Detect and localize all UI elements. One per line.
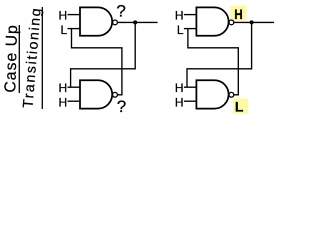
- nand gate G1 bubble: [113, 20, 118, 25]
- wire H input stub of NAND G2 (top): [68, 86, 81, 88]
- nand gate G3 body: [196, 7, 228, 35]
- svg-text:H: H: [59, 9, 68, 23]
- wire H input stub of NAND G3: [184, 14, 197, 16]
- node junction dot on Q of G3: [250, 20, 254, 24]
- svg-text:H: H: [175, 96, 184, 110]
- nand gate G1 body: [80, 7, 112, 35]
- svg-text:H: H: [175, 9, 184, 23]
- underline rule for "Case Up": [18, 25, 20, 93]
- svg-text:L: L: [177, 23, 184, 37]
- svg-text:?: ?: [117, 97, 126, 116]
- wire H input stub of NAND G1: [68, 14, 81, 16]
- wire H input stub of NAND G4 (top): [184, 86, 197, 88]
- svg-text:H: H: [59, 81, 68, 95]
- wire feedback Q to G4 top input (staircase): [187, 22, 252, 87]
- nand gate G3 bubble: [229, 20, 234, 25]
- nand gate G2 body: [80, 80, 112, 108]
- wire Q output of NAND G3: [234, 21, 274, 23]
- wire H input stub of NAND G4 (bottom): [184, 100, 197, 102]
- svg-text:?: ?: [116, 2, 125, 21]
- nand gate G4 body: [196, 80, 228, 108]
- wire feedback G2 output to G1 lower input (staircase): [72, 29, 122, 95]
- highlight box for output L: [233, 99, 248, 114]
- svg-text:L: L: [61, 23, 68, 37]
- wire L input stub of NAND G1: [68, 28, 81, 30]
- highlight box for output H: [231, 6, 247, 21]
- node junction dot on Q of G1: [133, 20, 137, 24]
- svg-text:Case Up: Case Up: [2, 24, 21, 93]
- svg-text:H: H: [234, 6, 243, 22]
- nand gate G2 bubble: [113, 92, 118, 97]
- wire L input stub of NAND G3: [184, 28, 197, 30]
- nand gate G4 bubble: [229, 92, 234, 97]
- wire H input stub of NAND G2 (bottom): [68, 100, 81, 102]
- underline rule for "Transitioning": [41, 7, 43, 109]
- svg-text:H: H: [175, 81, 184, 95]
- wire feedback Q to G2 top input (staircase): [71, 22, 136, 87]
- svg-text:H: H: [59, 96, 68, 110]
- svg-text:L: L: [235, 99, 244, 115]
- wire Q output of NAND G1: [117, 21, 157, 23]
- wire feedback G4 output to G3 lower input (staircase): [188, 29, 238, 95]
